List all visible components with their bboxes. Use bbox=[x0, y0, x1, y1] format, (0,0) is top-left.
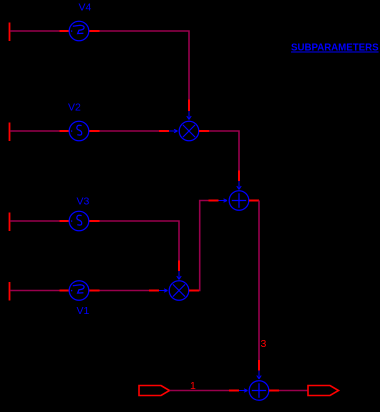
source V3 bbox=[60, 211, 100, 231]
multiplier U3 output pin bbox=[189, 290, 199, 292]
adder U4 left arrow bbox=[239, 389, 248, 392]
source V2 bbox=[60, 121, 100, 141]
svg-text:V4: V4 bbox=[79, 2, 92, 14]
wire net4: V2 right pin to multiplier U1 left pin bbox=[100, 130, 160, 132]
multiplier U1 top arrow bbox=[187, 111, 191, 120]
source V1 bbox=[60, 281, 100, 301]
wire net5: U1 output to adder U2 top bbox=[209, 131, 239, 171]
port 1 (left output port) bbox=[139, 386, 170, 396]
wire net13: U4 output to right port bbox=[279, 390, 308, 392]
adder U2 top arrow bbox=[237, 181, 241, 190]
adder U2 top pin bbox=[238, 171, 240, 182]
terminal T1 bbox=[9, 23, 11, 42]
adder U2 left pin bbox=[209, 200, 219, 202]
multiplier U3 top arrow bbox=[177, 271, 181, 280]
wire net8: terminal T4 to V1 left pin bbox=[10, 290, 60, 292]
wire net1: terminal T1 to V4 left pin bbox=[10, 30, 60, 32]
multiplier U1 output pin bbox=[199, 130, 209, 132]
terminal T2 bbox=[9, 123, 11, 142]
multiplier U1 bbox=[179, 121, 199, 141]
svg-text:V3: V3 bbox=[77, 196, 90, 208]
adder U4 top arrow bbox=[257, 371, 261, 380]
adder U4 output pin bbox=[269, 390, 279, 392]
source V4 bbox=[60, 21, 100, 41]
terminal T3 bbox=[9, 213, 11, 232]
svg-text:3: 3 bbox=[261, 338, 267, 350]
svg-text:SUBPARAMETERS: SUBPARAMETERS bbox=[291, 43, 379, 54]
wire net9: V1 right pin to multiplier U3 left pin bbox=[100, 290, 150, 292]
svg-text:V2: V2 bbox=[68, 102, 81, 114]
terminal T4 bbox=[9, 282, 11, 301]
wire net2: V4 right pin to multiplier U1 top bbox=[100, 31, 190, 100]
adder U4 left pin bbox=[229, 390, 239, 392]
adder U4 top pin bbox=[258, 360, 260, 371]
adder U4 bbox=[249, 381, 269, 401]
adder U2 bbox=[229, 191, 249, 211]
multiplier U1 top pin bbox=[188, 100, 190, 112]
wire net12: port 1 to adder U4 left pin bbox=[170, 390, 230, 392]
wire net6: terminal T3 to V3 left pin bbox=[10, 220, 60, 222]
port 2 (right output port) bbox=[308, 386, 339, 396]
wire net11: U2 output down to adder U4 top bbox=[258, 201, 260, 361]
multiplier U1 left pin bbox=[159, 130, 169, 132]
wire net7: V3 right pin to multiplier U3 top bbox=[100, 221, 180, 261]
multiplier U3 left arrow bbox=[159, 289, 168, 292]
adder U2 left arrow bbox=[219, 199, 228, 202]
multiplier U3 left pin bbox=[149, 290, 159, 292]
svg-text:V1: V1 bbox=[77, 305, 90, 317]
multiplier U3 top pin bbox=[178, 261, 180, 272]
multiplier U3 bbox=[169, 281, 189, 301]
wire net3: terminal T2 to V2 left pin bbox=[10, 130, 60, 132]
adder U2 output pin bbox=[249, 200, 259, 202]
multiplier U1 left arrow bbox=[169, 129, 178, 132]
wire net10: U3 output up to adder U2 left pin bbox=[199, 201, 209, 291]
